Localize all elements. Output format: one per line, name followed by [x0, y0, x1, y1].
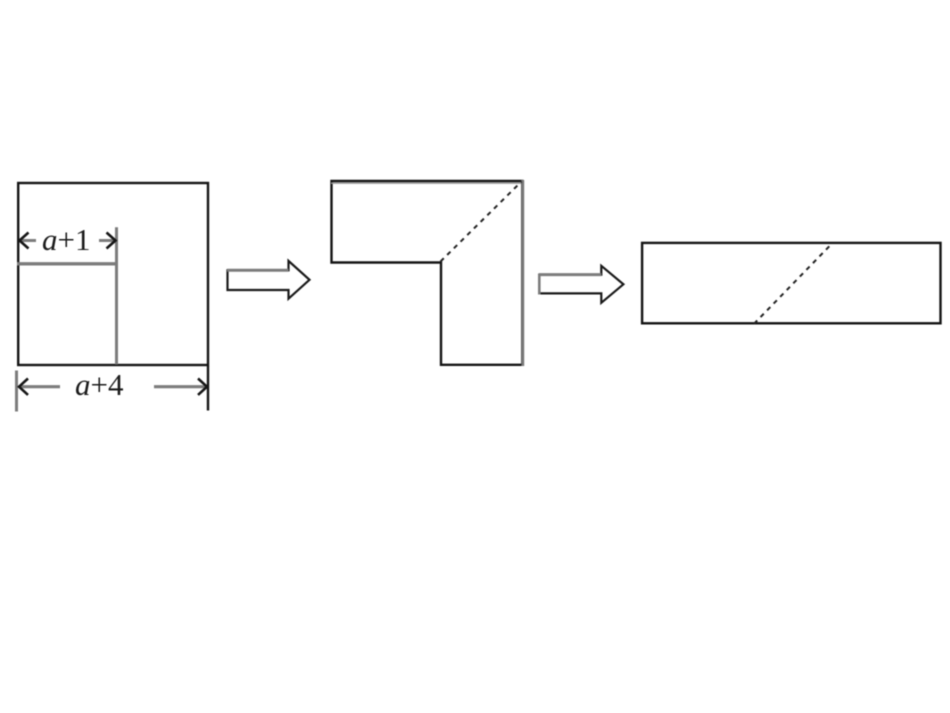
label a+1: [42, 222, 90, 257]
L-shaped piece (square with corner cut): [331, 180, 523, 366]
rectangle (2a+5 by a+... result): [642, 243, 940, 323]
left gray extension line below square: [15, 371, 18, 412]
inner gray vertical partition line: [115, 227, 118, 364]
inner gray horizontal partition line: [17, 262, 118, 265]
block arrow 2: [539, 266, 624, 303]
square outline (a+4 by a+4): [18, 183, 208, 365]
block arrow 1: [227, 261, 310, 299]
dimension arrows a+4: [19, 379, 207, 395]
svg-text:a+4: a+4: [75, 367, 124, 402]
right black extension line below square: [207, 366, 209, 411]
label a+4: [75, 367, 124, 402]
svg-text:a+1: a+1: [42, 222, 90, 257]
dimension arrows a+1: [20, 233, 116, 249]
dashed fold line in L-shape: [441, 182, 522, 262]
dashed seam line in rectangle: [754, 243, 833, 324]
